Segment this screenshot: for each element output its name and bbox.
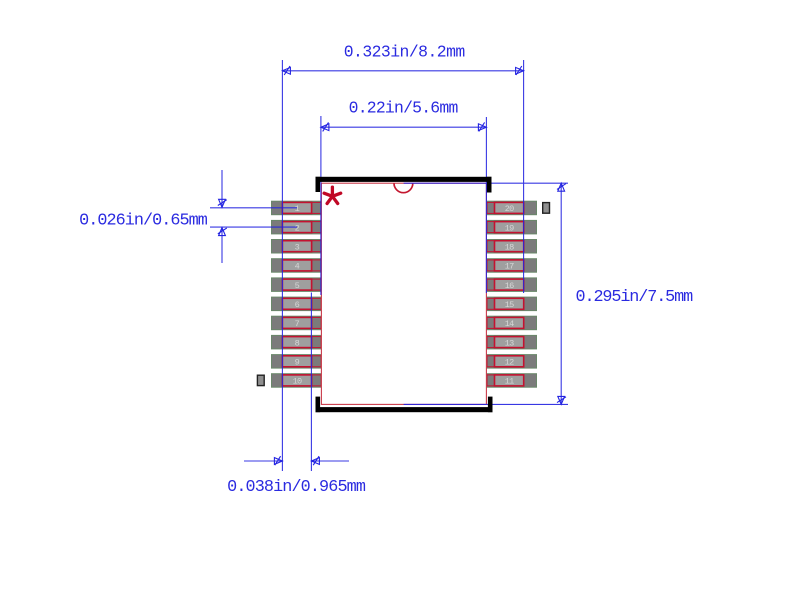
svg-text:0.026in/0.65mm: 0.026in/0.65mm	[79, 211, 208, 230]
svg-text:6: 6	[295, 300, 300, 310]
extension line body right	[485, 117, 487, 293]
dimension texts	[79, 42, 693, 497]
extension line pin length right	[310, 293, 312, 472]
arrowheads	[218, 66, 566, 465]
svg-text:16: 16	[505, 281, 514, 291]
package body outline	[321, 183, 486, 404]
pad pin 8	[272, 335, 322, 349]
pad pin 18	[487, 240, 537, 254]
pad pin 10	[272, 374, 322, 388]
arrow 0.295 down	[558, 396, 565, 404]
right dim line 0.295in	[560, 183, 562, 404]
svg-text:19: 19	[505, 223, 514, 233]
svg-text:12: 12	[505, 358, 514, 368]
svg-text:2: 2	[295, 223, 300, 233]
arrow 0.038 right-pointing	[274, 458, 282, 465]
black assembly outline top	[316, 177, 492, 193]
arrow 0.22 left	[321, 124, 329, 131]
leader pin2 center	[210, 226, 297, 228]
arrow 0.295 up	[558, 183, 565, 191]
blue dimension graphics	[210, 60, 568, 471]
svg-text:0.038in/0.965mm: 0.038in/0.965mm	[227, 478, 366, 497]
pin-1 notch semicircle	[394, 183, 413, 192]
pad pin 15	[487, 297, 537, 311]
pad pin 2	[272, 220, 322, 234]
svg-text:9: 9	[295, 358, 300, 368]
black assembly outline bottom	[316, 397, 493, 413]
arrow 0.323 right	[516, 67, 524, 74]
small square marker left (near pin 10)	[257, 375, 264, 385]
svg-text:7: 7	[295, 319, 300, 329]
svg-text:0.323in/8.2mm: 0.323in/8.2mm	[344, 42, 465, 61]
arrow pitch up	[219, 228, 226, 236]
svg-text:8: 8	[295, 338, 300, 348]
svg-text:1: 1	[295, 204, 300, 214]
pad pin 19	[487, 220, 537, 234]
svg-text:20: 20	[505, 204, 514, 214]
body bottom blue overlap + extension to right dim	[404, 403, 568, 405]
pitch dim vertical upper	[221, 170, 223, 207]
svg-text:15: 15	[505, 300, 514, 310]
pitch dim vertical lower	[221, 228, 223, 263]
svg-text:4: 4	[295, 262, 300, 272]
pad pin 9	[272, 355, 322, 369]
bottom dim leader left	[244, 460, 282, 462]
pad pin 11	[487, 374, 537, 388]
dim line 0.22in	[321, 126, 487, 128]
extension line right overall	[523, 60, 525, 293]
pad pin 17	[487, 259, 537, 273]
pad pin 5	[272, 278, 322, 292]
pad pin 1	[272, 201, 322, 215]
extension line body left	[320, 116, 322, 295]
arrow 0.323 left	[282, 67, 290, 74]
pad pin 6	[272, 297, 322, 311]
pad pin 20	[487, 201, 537, 215]
pad pin 13	[487, 335, 537, 349]
bottom dim leader right	[311, 460, 349, 462]
pad pin 12	[487, 355, 537, 369]
dim line 0.323in	[282, 70, 523, 72]
svg-text:18: 18	[505, 243, 514, 253]
svg-text:10: 10	[293, 377, 302, 387]
svg-text:14: 14	[505, 319, 514, 329]
pad pin 14	[487, 316, 537, 330]
leader pin1 center	[210, 207, 297, 209]
svg-text:17: 17	[505, 262, 514, 272]
svg-text:5: 5	[295, 281, 300, 291]
pad pin 3	[272, 240, 322, 254]
pin-1 asterisk	[324, 187, 341, 203]
pad pin 4	[272, 259, 322, 273]
svg-text:0.295in/7.5mm: 0.295in/7.5mm	[576, 288, 694, 307]
extension line left overall	[281, 60, 283, 471]
small square marker right (near pin 20)	[543, 203, 550, 214]
svg-text:3: 3	[295, 243, 300, 253]
left pads group (pins 1-10)	[272, 201, 322, 387]
pad pin 16	[487, 278, 537, 292]
svg-text:13: 13	[505, 338, 514, 348]
svg-text:0.22in/5.6mm: 0.22in/5.6mm	[349, 99, 458, 118]
arrow 0.22 right	[478, 124, 486, 131]
pad pin 7	[272, 316, 322, 330]
right pads group (pins 20-11)	[487, 201, 537, 387]
arrow 0.038 left-pointing	[311, 458, 319, 465]
body top blue overlap + extension to right dim	[404, 182, 568, 184]
arrow pitch down	[219, 199, 226, 207]
svg-text:11: 11	[505, 377, 514, 387]
